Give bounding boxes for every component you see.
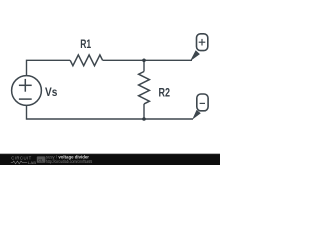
svg-text:LAB: LAB [28,160,36,165]
svg-text:CL: CL [38,158,44,162]
svg-text:R2: R2 [159,86,171,100]
svg-text:Vs: Vs [45,85,58,99]
svg-text:R1: R1 [80,37,91,51]
svg-text:http://circuitlab.com/cmrf5a65: http://circuitlab.com/cmrf5a65 [46,159,93,164]
